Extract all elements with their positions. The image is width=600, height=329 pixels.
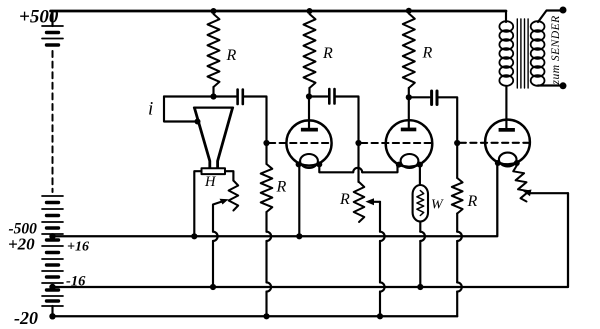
svg-text:H: H xyxy=(204,174,217,190)
triode V1 anode lead xyxy=(308,97,310,129)
capacitor C2 xyxy=(329,89,334,104)
grid resistor R tube3 xyxy=(456,143,458,178)
node top bus dot R1 xyxy=(211,8,217,14)
svg-text:i: i xyxy=(148,99,153,120)
svg-text:+16: +16 xyxy=(67,240,89,255)
node battery tap -20 dot xyxy=(49,313,55,319)
triode V3 anode lead xyxy=(505,86,507,128)
battery B1 top stem xyxy=(51,11,53,26)
resistor R3 xyxy=(403,14,415,89)
node W -16 dot xyxy=(417,284,423,290)
node battery tap +20 dot xyxy=(49,233,55,239)
triode V2 grid dashed xyxy=(361,142,432,144)
node V3 fil right dot xyxy=(514,160,520,166)
node pot2 tap -20 dot xyxy=(377,313,383,319)
funnel element top xyxy=(194,106,233,108)
svg-text:+20: +20 xyxy=(8,235,35,254)
node top bus dot R3 xyxy=(406,8,412,14)
rheostat V3 zigzag xyxy=(513,166,529,202)
transformer T1 secondary coil xyxy=(531,21,545,86)
rheostat H zigzag xyxy=(229,181,239,211)
svg-text:R: R xyxy=(226,47,237,64)
node grid3 dot xyxy=(454,140,460,146)
terminal bottom dot xyxy=(560,82,567,89)
node H wiper -16 dot xyxy=(210,284,216,290)
grid resistor R tube1 xyxy=(265,143,267,164)
svg-text:R: R xyxy=(339,191,350,208)
svg-text:W: W xyxy=(431,198,444,213)
wire H right to rheostat xyxy=(225,171,233,180)
transformer T1 primary lead xyxy=(505,11,507,22)
svg-text:R: R xyxy=(467,193,478,210)
triode V1 envelope xyxy=(286,120,331,165)
triode V1 filament loop xyxy=(300,154,318,168)
node V3 fil left dot xyxy=(495,160,501,166)
wire i input loop xyxy=(164,97,196,122)
battery B1 lower cell plates xyxy=(42,196,63,306)
resistor R2 xyxy=(304,14,316,88)
heater H block xyxy=(202,168,226,174)
node top bus dot R2 xyxy=(307,8,313,14)
triode V1 plate bar xyxy=(301,128,318,132)
funnel element right slant xyxy=(218,108,233,168)
wire secondary top lead xyxy=(538,11,561,23)
wire C1 to grid1 xyxy=(244,97,267,141)
node V1 fil left dot xyxy=(296,161,302,167)
wiper pot2 arrow wire xyxy=(370,201,381,203)
svg-text:R: R xyxy=(422,45,433,62)
battery B1 bottom stem xyxy=(51,306,53,316)
triode V2 filament loop xyxy=(401,154,419,168)
wire grid leak 3 to -20 xyxy=(456,214,458,317)
triode V3 plate bar xyxy=(499,128,515,132)
lamp resistor W body xyxy=(413,185,428,222)
node grid leak 1 -20 dot xyxy=(263,313,269,319)
wire secondary bottom lead xyxy=(538,84,561,86)
transformer T1 core xyxy=(517,19,528,88)
battery B1 dashed middle xyxy=(52,51,54,192)
node V1 anode dot xyxy=(306,93,312,99)
wire C2 to grid2 xyxy=(336,97,359,141)
capacitor C1 xyxy=(238,90,243,105)
capacitor C3 xyxy=(432,91,437,105)
wire pot2 tap to -20 xyxy=(379,202,381,316)
funnel element left slant xyxy=(195,108,210,168)
svg-text:zum SENDER: zum SENDER xyxy=(550,15,562,85)
battery B1 top cell plates xyxy=(42,26,63,39)
node i tap dot xyxy=(195,119,201,125)
potentiometer R tube2 zigzag xyxy=(354,182,365,222)
node cap1 input dot xyxy=(210,93,216,99)
wire C3 to grid3 xyxy=(439,97,458,140)
lamp resistor W zigzag xyxy=(417,191,424,216)
node battery tap -16 dot xyxy=(49,284,55,290)
wire grid leak 1 to -20 xyxy=(265,212,267,316)
node V2 fil left dot xyxy=(396,162,402,168)
triode V2 plate bar xyxy=(401,128,417,132)
svg-text:-16: -16 xyxy=(66,274,86,290)
wire anode row stage3 xyxy=(409,96,430,98)
svg-text:-20: -20 xyxy=(14,308,38,328)
triode V1 grid dashed xyxy=(269,142,332,144)
terminal top dot xyxy=(560,7,567,14)
wire anode row stage2 xyxy=(309,95,328,97)
triode V3 grid dashed xyxy=(460,142,530,144)
wire top +500 bus xyxy=(51,10,507,13)
svg-text:R: R xyxy=(322,45,333,62)
wiper V3 arrow wire xyxy=(529,192,568,194)
svg-text:R: R xyxy=(276,179,287,196)
transformer T1 primary coil xyxy=(499,21,513,86)
triode V2 anode lead xyxy=(408,97,410,127)
lamp resistor W leads xyxy=(419,165,422,287)
wire anode row stage1 xyxy=(164,95,236,97)
bus -16 line xyxy=(53,193,569,287)
svg-text:+500: +500 xyxy=(19,6,59,27)
triode V3 filament loop xyxy=(499,153,517,167)
node V2 anode dot xyxy=(406,94,412,100)
wire V1 fil right to V2 fil left xyxy=(319,164,397,172)
node grid2 dot xyxy=(355,140,361,146)
node V1 fil left bus dot xyxy=(296,233,302,239)
wire grid2 down to pot xyxy=(357,143,359,182)
resistor R1 xyxy=(208,14,220,87)
node V2 fil right dot xyxy=(417,162,423,168)
wiper H arrow wire xyxy=(213,201,225,288)
node V1 fil right dot xyxy=(316,161,322,167)
wire H left to +16 bus xyxy=(194,171,201,236)
triode V3 envelope xyxy=(485,120,530,165)
bus +16 line xyxy=(53,163,498,236)
bus -20 line xyxy=(53,315,458,317)
triode V2 envelope xyxy=(386,120,433,167)
wire V1 fil left to +16 xyxy=(298,164,300,236)
node grid1 dot xyxy=(263,140,269,146)
node H left bus dot xyxy=(191,233,197,239)
